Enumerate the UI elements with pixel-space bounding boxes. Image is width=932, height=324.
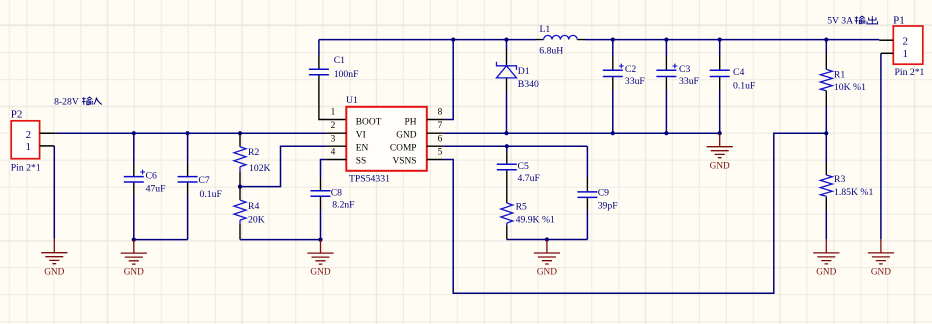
svg-text:C8: C8 (331, 187, 342, 198)
CJK glyph shu (input) (82, 97, 92, 105)
junction GND rail at C2 (611, 131, 615, 135)
svg-text:U1: U1 (346, 95, 358, 106)
capacitor C9 (577, 146, 618, 239)
svg-text:R2: R2 (248, 147, 259, 158)
ground GND2 under C6 (121, 240, 147, 278)
ground GND3 under C8 (307, 240, 333, 278)
svg-text:Pin 2*1: Pin 2*1 (895, 67, 925, 78)
svg-text:GND: GND (310, 268, 330, 278)
svg-text:Pin 2*1: Pin 2*1 (11, 162, 41, 173)
svg-text:5: 5 (438, 148, 443, 158)
inductor L1 (536, 24, 585, 57)
wire top net right segment (585, 39, 879, 41)
CJK glyph ru (input) (94, 98, 102, 105)
svg-text:6.8uH: 6.8uH (539, 46, 563, 57)
junction top net at PH column (451, 38, 455, 42)
svg-text:C2: C2 (625, 64, 636, 75)
pin 2 of P2 (40, 132, 56, 134)
junction at C7 top (186, 131, 190, 135)
svg-text:39pF: 39pF (598, 201, 619, 212)
svg-text:GND: GND (124, 268, 144, 278)
junction at R2 bottom (238, 185, 242, 189)
svg-text:VI: VI (356, 131, 366, 141)
CJK glyph chu (output) (867, 16, 878, 24)
junction rail at GND4 (545, 237, 549, 241)
svg-text:0.1uF: 0.1uF (733, 80, 756, 91)
op-amp U1 TPS54331 body (346, 95, 427, 185)
svg-text:GND: GND (44, 267, 64, 277)
svg-text:8-28V: 8-28V (54, 96, 79, 107)
svg-text:GND: GND (816, 268, 836, 278)
svg-text:8.2nF: 8.2nF (332, 200, 355, 211)
wire rail C5-C9 bottom (507, 239, 588, 241)
svg-text:BOOT: BOOT (356, 118, 382, 128)
svg-text:1: 1 (331, 108, 336, 118)
pin 2 VI (327, 121, 347, 133)
svg-text:4: 4 (331, 148, 336, 158)
wire VSNS feedback route (443, 133, 826, 293)
net label 5V 3A output (827, 15, 877, 26)
wire rail R4 to C8 bottom (240, 239, 321, 241)
svg-text:COMP: COMP (390, 144, 417, 154)
wire GND rail from pin7 to C4 (443, 132, 719, 134)
svg-text:C5: C5 (518, 161, 529, 172)
pin 6 COMP (427, 134, 444, 146)
junction top net at C2 (611, 38, 615, 42)
svg-text:33uF: 33uF (679, 76, 700, 87)
svg-text:EN: EN (356, 144, 369, 154)
svg-text:C6: C6 (146, 171, 157, 182)
svg-text:C7: C7 (198, 175, 209, 186)
wire P1 pin1 down to GND (880, 53, 882, 239)
junction COMP at C5 (505, 144, 509, 148)
capacitor C8 (311, 160, 356, 240)
capacitor C1 (309, 40, 359, 120)
capacitor C5 (497, 146, 541, 203)
svg-text:6: 6 (438, 134, 443, 144)
junction GND rail at D1 (504, 131, 508, 135)
svg-text:VSNS: VSNS (393, 157, 417, 167)
wire COMP net pin6 to C9 (443, 145, 587, 147)
resistor R3 (820, 133, 873, 239)
CJK glyph shu (output) (855, 16, 865, 24)
svg-text:GND: GND (537, 268, 557, 278)
svg-text:PH: PH (405, 118, 417, 128)
svg-text:GND: GND (710, 161, 730, 171)
svg-text:P2: P2 (11, 108, 23, 120)
svg-text:R5: R5 (516, 202, 527, 213)
ground GND4 under R5 rail (534, 240, 560, 278)
connector P2 (11, 108, 41, 173)
svg-text:102K: 102K (249, 163, 271, 174)
junction at C6 bottom (132, 238, 136, 242)
svg-text:33uF: 33uF (625, 76, 646, 87)
wire VIN row from P2 pin2 to U1 VI (56, 132, 327, 134)
svg-text:P1: P1 (893, 14, 905, 26)
svg-text:1: 1 (25, 141, 31, 153)
wire P2 pin1 down to GND (53, 146, 55, 239)
svg-text:R4: R4 (248, 201, 259, 212)
pin 4 SS (327, 148, 347, 160)
junction at C6 top (132, 131, 136, 135)
svg-text:C1: C1 (334, 55, 345, 66)
svg-text:5V 3A: 5V 3A (827, 15, 853, 26)
svg-text:49.9K %1: 49.9K %1 (516, 214, 555, 225)
pin 1 of P2 (40, 145, 55, 147)
diode D1 B340 schottky (497, 40, 539, 134)
svg-text:L1: L1 (540, 24, 551, 35)
svg-text:2: 2 (331, 121, 336, 131)
junction GND rail at C4 (718, 131, 722, 135)
svg-text:0.1uF: 0.1uF (200, 189, 223, 200)
svg-text:2: 2 (26, 129, 32, 141)
svg-text:GND: GND (871, 268, 891, 278)
svg-text:C4: C4 (733, 67, 744, 78)
wire top net left segment (319, 39, 536, 41)
svg-text:100nF: 100nF (334, 69, 359, 80)
pin 8 PH (427, 108, 445, 120)
capacitor C2 (603, 40, 646, 134)
pin 3 EN (327, 134, 347, 146)
ground GND5 under C4 (707, 133, 733, 171)
pin 7 GND (427, 121, 444, 133)
wire PH pin to top net (445, 40, 453, 120)
junction top net at R1 (824, 38, 828, 42)
svg-text:10K %1: 10K %1 (834, 82, 866, 93)
wire rail C6-C7 bottom (134, 239, 188, 241)
capacitor C7 (178, 133, 223, 239)
ground GND6 under R3 (813, 239, 839, 277)
pin 1 of P1 (881, 52, 893, 54)
resistor R4 (234, 187, 265, 240)
junction at R2 top (238, 131, 242, 135)
svg-text:2: 2 (902, 36, 908, 48)
svg-text:1.85K %1: 1.85K %1 (834, 187, 873, 198)
svg-text:R1: R1 (834, 70, 845, 81)
svg-text:GND: GND (396, 131, 417, 141)
svg-text:20K: 20K (248, 214, 265, 225)
junction feedback at R1-R3 (824, 131, 828, 135)
junction top net at D1 (504, 38, 508, 42)
ground GND7 under P1 (868, 239, 894, 277)
net label 8-28V input (54, 96, 102, 107)
svg-text:7: 7 (438, 121, 443, 131)
svg-text:47uF: 47uF (146, 184, 167, 195)
capacitor C4 (710, 40, 756, 134)
junction GND rail at C3 (664, 131, 668, 135)
capacitor C3 (656, 40, 699, 134)
resistor R2 (234, 133, 271, 186)
resistor R1 (820, 40, 866, 134)
svg-text:8: 8 (438, 108, 443, 118)
svg-text:SS: SS (356, 157, 366, 167)
svg-text:B340: B340 (518, 79, 539, 90)
junction top net at C4 (718, 38, 722, 42)
svg-text:1: 1 (902, 48, 908, 60)
junction top net at C3 (664, 38, 668, 42)
svg-text:D1: D1 (518, 66, 530, 77)
junction at C8 bottom (318, 238, 322, 242)
connector P1 (893, 14, 924, 78)
ground GND1 under P2 (41, 239, 67, 277)
pin 2 of P1 (879, 39, 893, 41)
wire R2 bottom to EN pin (240, 146, 327, 186)
pin 5 VSNS (427, 148, 444, 160)
svg-text:TPS54331: TPS54331 (349, 174, 390, 185)
capacitor C6 (124, 133, 166, 239)
svg-text:3: 3 (331, 134, 336, 144)
svg-text:4.7uF: 4.7uF (518, 173, 541, 184)
svg-text:C3: C3 (679, 64, 690, 75)
resistor R5 (501, 202, 555, 240)
svg-text:R3: R3 (834, 174, 845, 185)
svg-text:C9: C9 (598, 188, 609, 199)
